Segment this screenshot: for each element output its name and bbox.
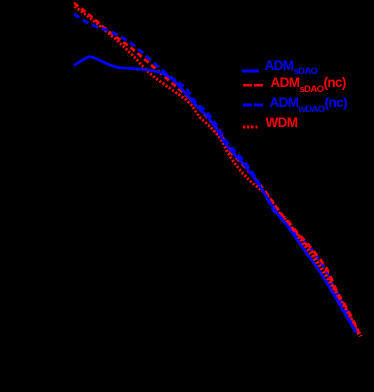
legend text ADM_wDAO(nc) [270,96,347,113]
legend text ADM_sDAO(nc) [271,76,346,93]
curve WDM (red dotted) [75,7,361,337]
curve ADM_wDAO(nc) (blue dashed) [74,14,357,333]
legend line sample: blue solid [242,70,259,73]
curve ADM_sDAO (blue solid) [74,57,356,332]
legend text ADM_sDAO [265,59,318,76]
curve ADM_sDAO(nc) tail overdraw (red dashed) [285,217,359,333]
curve ADM_sDAO(nc) (red dashed) [74,3,358,334]
legend text WDM [266,116,298,130]
curve WDM tail overdraw (red dotted) [285,218,361,336]
legend line sample: blue dashed [243,104,263,107]
legend line sample: red dotted [243,126,258,129]
legend line sample: red dashed [243,84,263,87]
